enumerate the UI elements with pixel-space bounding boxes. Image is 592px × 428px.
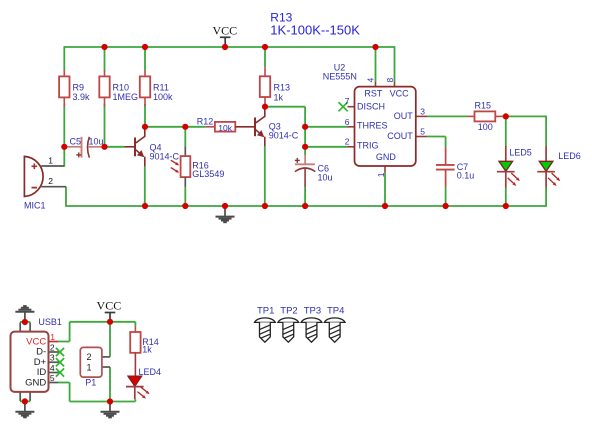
svg-text:1k: 1k bbox=[142, 345, 152, 355]
svg-text:2: 2 bbox=[48, 176, 53, 186]
svg-text:P1: P1 bbox=[85, 378, 96, 388]
svg-text:7: 7 bbox=[345, 96, 350, 106]
svg-text:1: 1 bbox=[87, 362, 92, 372]
svg-text:LED6: LED6 bbox=[558, 151, 581, 161]
svg-text:R13: R13 bbox=[274, 82, 291, 92]
svg-text:3: 3 bbox=[50, 353, 55, 363]
svg-text:C5: C5 bbox=[70, 137, 82, 147]
svg-text:2: 2 bbox=[50, 342, 55, 352]
svg-text:THRES: THRES bbox=[357, 120, 388, 130]
svg-text:100k: 100k bbox=[153, 92, 173, 102]
svg-text:1: 1 bbox=[50, 332, 55, 342]
svg-text:10u: 10u bbox=[318, 172, 333, 182]
svg-text:R10: R10 bbox=[113, 82, 130, 92]
svg-text:DISCH: DISCH bbox=[357, 102, 385, 112]
svg-text:TP2: TP2 bbox=[280, 306, 297, 317]
svg-text:10u: 10u bbox=[89, 137, 104, 147]
svg-text:4: 4 bbox=[50, 363, 55, 373]
svg-text:5: 5 bbox=[420, 126, 425, 136]
svg-text:MIC1: MIC1 bbox=[24, 201, 46, 211]
svg-text:USB1: USB1 bbox=[38, 317, 62, 327]
svg-text:VCC: VCC bbox=[390, 88, 410, 98]
svg-text:1k: 1k bbox=[274, 93, 284, 103]
svg-text:COUT: COUT bbox=[387, 131, 413, 141]
svg-text:1: 1 bbox=[376, 172, 386, 177]
svg-text:TP4: TP4 bbox=[327, 306, 344, 317]
svg-text:GND: GND bbox=[25, 377, 46, 388]
svg-text:1: 1 bbox=[48, 156, 53, 166]
svg-text:LED5: LED5 bbox=[509, 147, 532, 157]
svg-text:2: 2 bbox=[87, 352, 92, 362]
svg-text:3: 3 bbox=[420, 106, 425, 116]
svg-text:1K-100K--150K: 1K-100K--150K bbox=[270, 22, 360, 37]
svg-text:NE555N: NE555N bbox=[323, 72, 357, 82]
svg-text:VCC: VCC bbox=[97, 298, 122, 312]
svg-text:VCC: VCC bbox=[212, 23, 237, 37]
svg-text:6: 6 bbox=[345, 117, 350, 127]
svg-text:RST: RST bbox=[364, 88, 383, 98]
svg-text:R12: R12 bbox=[197, 117, 214, 127]
svg-text:100: 100 bbox=[478, 122, 493, 132]
svg-text:R15: R15 bbox=[475, 100, 492, 110]
svg-text:9014-C: 9014-C bbox=[269, 131, 299, 141]
svg-text:3.9k: 3.9k bbox=[73, 92, 91, 102]
svg-text:GL3549: GL3549 bbox=[192, 169, 224, 179]
svg-text:R9: R9 bbox=[73, 82, 85, 92]
svg-text:1MEG: 1MEG bbox=[113, 92, 139, 102]
svg-text:OUT: OUT bbox=[394, 111, 414, 121]
svg-text:TP3: TP3 bbox=[304, 306, 321, 317]
svg-text:LED4: LED4 bbox=[139, 367, 162, 377]
svg-text:10k: 10k bbox=[218, 123, 232, 133]
svg-text:8: 8 bbox=[385, 78, 395, 83]
svg-text:GND: GND bbox=[376, 152, 397, 162]
svg-text:R11: R11 bbox=[153, 82, 169, 92]
svg-text:TRIG: TRIG bbox=[357, 140, 379, 150]
svg-text:2: 2 bbox=[345, 136, 350, 146]
svg-text:TP1: TP1 bbox=[257, 306, 274, 317]
svg-text:0.1u: 0.1u bbox=[457, 170, 475, 180]
svg-text:5: 5 bbox=[50, 373, 55, 383]
svg-text:4: 4 bbox=[366, 78, 376, 83]
svg-text:9014-C: 9014-C bbox=[150, 151, 180, 161]
